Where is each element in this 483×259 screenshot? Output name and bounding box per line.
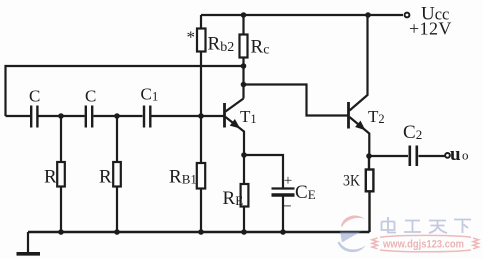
resistor RE <box>241 155 249 232</box>
svg-text:C: C <box>85 87 96 106</box>
wire top supply rail <box>201 14 403 16</box>
svg-text:T1: T1 <box>240 107 257 126</box>
wire output <box>369 155 445 157</box>
svg-text:+12V: +12V <box>409 18 452 38</box>
node emitter T1 junction <box>241 152 247 158</box>
node RC top junction <box>241 12 247 18</box>
wire feedback line <box>6 66 244 116</box>
node feedback junction <box>241 63 247 69</box>
node collector branch junction <box>241 82 247 88</box>
svg-text:C1: C1 <box>141 85 159 104</box>
capacitor C1 <box>144 106 150 128</box>
svg-text:u: u <box>450 144 461 165</box>
terminal uo <box>445 153 450 158</box>
transistor T2 <box>349 15 370 156</box>
svg-text:*: * <box>187 28 196 47</box>
emitter arrow T1 <box>230 119 243 132</box>
resistor Rb2 <box>197 15 206 163</box>
node T2 collector junction <box>365 12 371 18</box>
svg-text:CE: CE <box>295 182 316 203</box>
resistor 3K <box>366 156 374 232</box>
capacitor C (first) <box>31 106 37 128</box>
svg-text:C2: C2 <box>403 122 422 143</box>
svg-text:o: o <box>462 148 469 163</box>
emitter arrow T2 <box>355 121 368 134</box>
wire emitter to CE <box>244 155 283 188</box>
svg-text:Rb2: Rb2 <box>208 34 235 56</box>
wire T1 collector to T2 base <box>244 85 348 116</box>
resistor RB1 <box>197 163 205 232</box>
capacitor CE <box>272 189 295 233</box>
svg-text:R: R <box>99 167 112 188</box>
watermark logo swirl <box>338 215 366 252</box>
svg-text:−: − <box>282 197 292 216</box>
ground <box>17 232 41 254</box>
wire phase-shift ladder <box>6 115 224 117</box>
resistor R (first) <box>57 116 65 232</box>
watermark text dian gong tian xia <box>382 217 472 233</box>
node emitter T2 junction <box>366 153 372 159</box>
capacitor C (second) <box>86 106 92 128</box>
svg-text:Rc: Rc <box>251 37 270 58</box>
svg-text:www.dgjs123.com: www.dgjs123.com <box>382 239 464 251</box>
svg-text:3K: 3K <box>343 173 360 190</box>
node base junction <box>198 113 204 119</box>
svg-text:RB1: RB1 <box>169 167 197 188</box>
resistor RC <box>240 15 248 99</box>
resistor R (second) <box>113 116 121 232</box>
node ladder junction 1 <box>58 113 64 119</box>
transistor T1 <box>225 99 245 156</box>
svg-text:T2: T2 <box>368 107 385 126</box>
watermark banner <box>372 235 479 251</box>
svg-text:+: + <box>284 173 292 189</box>
node rail junctions <box>58 229 64 235</box>
svg-text:C: C <box>29 87 40 106</box>
capacitor C2 <box>410 146 417 167</box>
node ladder junction 2 <box>114 113 120 119</box>
wire ground rail <box>28 231 370 233</box>
terminal Ucc <box>405 13 410 18</box>
svg-text:R: R <box>44 167 57 188</box>
